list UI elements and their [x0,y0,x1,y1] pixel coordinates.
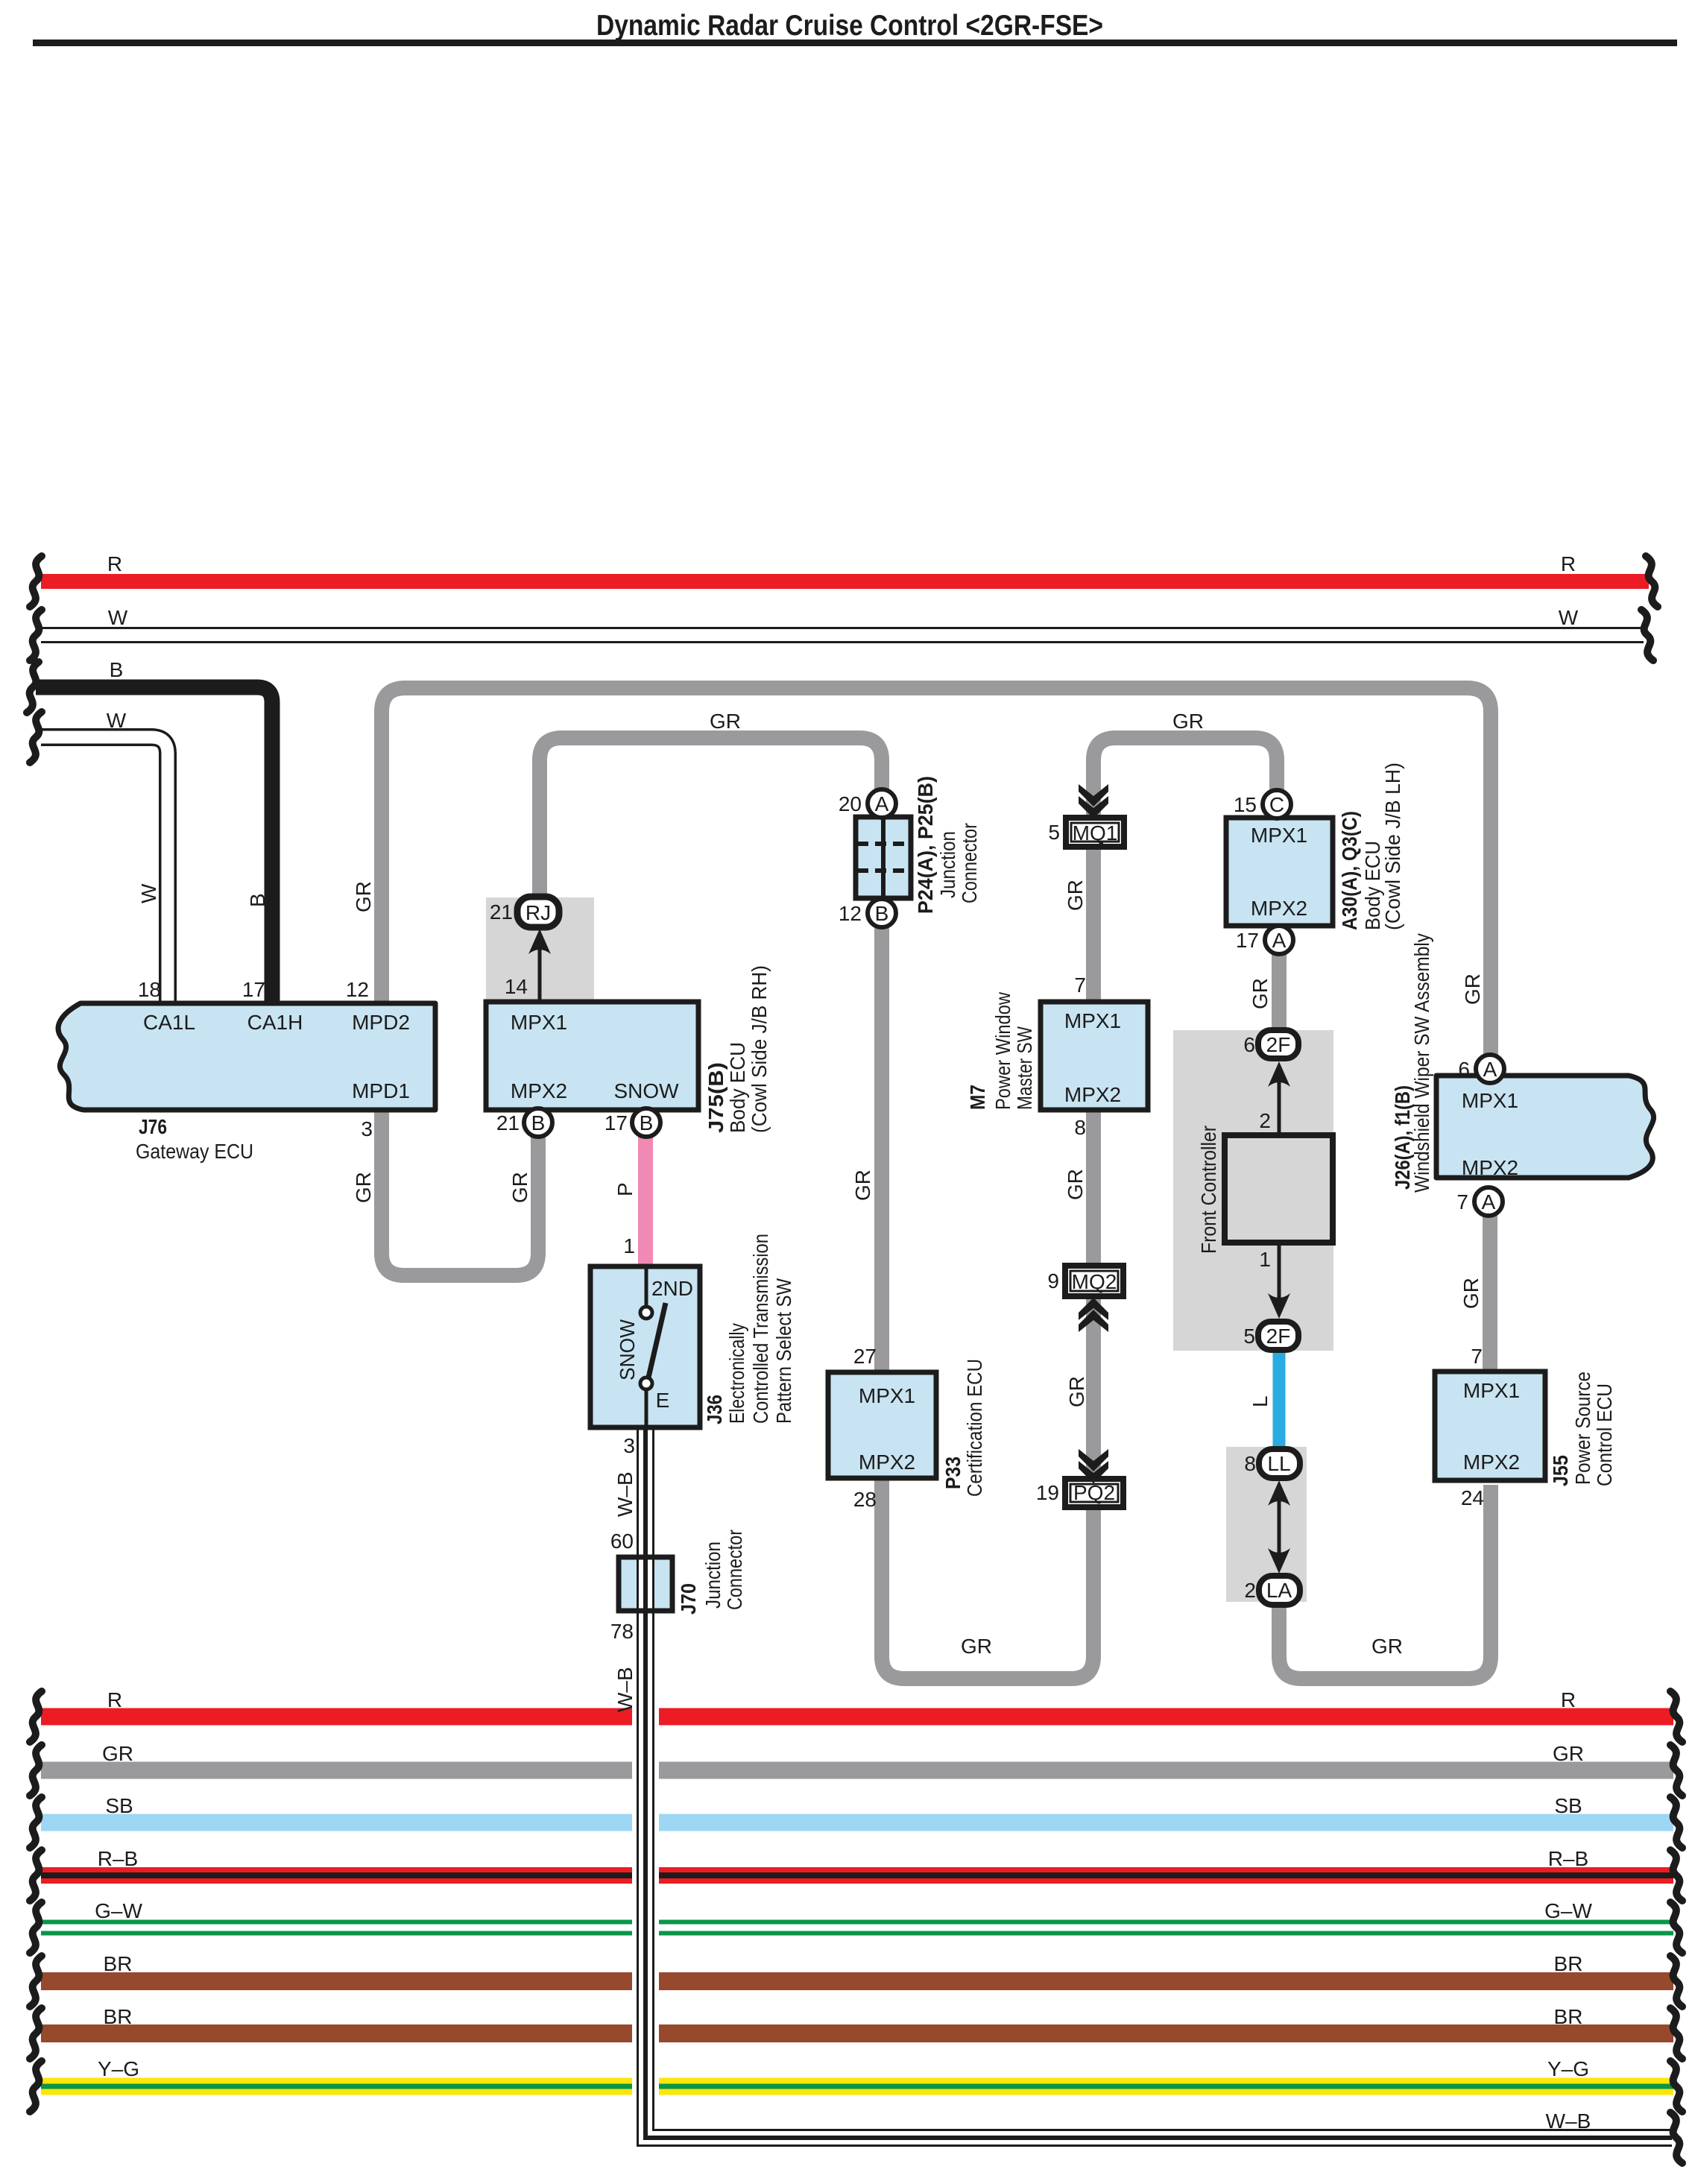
svg-text:20: 20 [839,792,862,815]
break squiggle R top left [30,556,42,607]
wire GR J76 pin12 to J26 pin6 (top long run) [382,688,1491,1061]
P24 internal vertical line [881,817,886,898]
svg-text:W: W [137,883,160,903]
svg-text:MPX1: MPX1 [859,1384,915,1407]
PQ2 connector box [1065,1479,1123,1507]
svg-text:B: B [531,1111,546,1134]
svg-text:6: 6 [1458,1058,1470,1081]
wire W bus (top) outer [41,627,1644,643]
Certification ECU P33 box [828,1372,936,1478]
svg-text:GR: GR [1064,1169,1087,1200]
J36 switch top lead [645,1266,648,1307]
svg-text:MPX1: MPX1 [1064,1009,1121,1032]
svg-text:8: 8 [1244,1452,1256,1475]
P24 internal dashed line 1 [857,842,909,846]
svg-text:MPX1: MPX1 [511,1011,567,1034]
svg-text:R: R [107,552,122,575]
svg-text:Connector: Connector [723,1530,746,1610]
svg-text:MPX1: MPX1 [1251,824,1307,847]
svg-text:P24(A), P25(B): P24(A), P25(B) [914,776,937,914]
svg-text:3: 3 [623,1434,635,1457]
arrow up into RJ [538,944,542,1002]
Body ECU J75(B) box [486,1002,698,1110]
svg-text:Y–G: Y–G [1547,2057,1589,2080]
svg-text:L: L [1249,1395,1272,1407]
svg-text:7: 7 [1456,1190,1468,1213]
connector circle B12 on P24 [868,899,896,927]
svg-text:MPX2: MPX2 [859,1451,915,1474]
chevron pair above PQ2 (pointing down) [1079,1449,1108,1471]
svg-text:2: 2 [1259,1109,1271,1132]
svg-text:R–B: R–B [1548,1847,1588,1870]
svg-text:MPX2: MPX2 [1251,897,1307,920]
svg-text:W: W [1559,606,1579,629]
svg-text:P33: P33 [941,1456,965,1489]
svg-text:LL: LL [1267,1452,1290,1475]
wire P (pink) J75 pin17 to J36 pin1 [638,1134,653,1269]
svg-text:Body ECU: Body ECU [726,1042,749,1133]
wire GR bus (bottom) [41,1762,1673,1779]
svg-text:MPX2: MPX2 [1463,1451,1520,1474]
wire GR J76 pin3 to J75 pin21 (U link) [382,1110,538,1275]
wire BR bus 2 (bottom) [41,2024,1673,2042]
MQ2 connector box [1065,1266,1123,1296]
svg-text:Windshield Wiper SW Assembly: Windshield Wiper SW Assembly [1410,933,1433,1193]
svg-text:1: 1 [1259,1248,1271,1271]
svg-text:(Cowl Side J/B LH): (Cowl Side J/B LH) [1381,763,1404,930]
arrow down into LA [1268,1548,1290,1574]
svg-text:CA1H: CA1H [247,1011,303,1034]
svg-text:21: 21 [496,1111,520,1134]
svg-text:GR: GR [352,881,375,912]
wire B to J76 pin 17 [36,687,272,1006]
connector circle A7 on J26 [1474,1187,1503,1216]
svg-text:GR: GR [710,710,741,733]
svg-text:(Cowl Side J/B RH): (Cowl Side J/B RH) [748,965,771,1133]
svg-text:SB: SB [105,1794,133,1817]
Pattern Select SW J36 box [590,1266,700,1427]
svg-text:MPX2: MPX2 [1064,1083,1121,1106]
svg-text:GR: GR [102,1742,133,1765]
wire W bus (top) core [40,629,1645,641]
svg-text:Junction: Junction [701,1541,725,1609]
svg-text:CA1L: CA1L [143,1011,195,1034]
svg-text:J36: J36 [703,1395,726,1424]
svg-text:W–B: W–B [1546,2109,1591,2133]
svg-text:9: 9 [1047,1269,1059,1293]
svg-text:21: 21 [490,900,513,924]
svg-text:GR: GR [851,1170,874,1201]
svg-text:GR: GR [508,1172,531,1203]
chevron pair above MQ1 (pointing down) [1079,784,1108,807]
J36 switch contact circle top [640,1307,652,1319]
wire G-W bus (bottom) [41,1920,1673,1936]
svg-text:A: A [1482,1190,1496,1213]
shade behind Front Controller [1173,1030,1333,1351]
svg-text:6: 6 [1243,1033,1255,1056]
break squiggle W top right [1641,610,1653,660]
wire GR A30 pin17 to 2F pin6 [1272,950,1287,1038]
wire R bus (bottom) [41,1708,1673,1726]
svg-text:17: 17 [242,978,265,1001]
svg-text:E: E [656,1389,670,1412]
svg-text:12: 12 [346,978,369,1001]
svg-text:BR: BR [104,2005,133,2028]
svg-text:M7: M7 [966,1085,989,1110]
MQ1 connector box [1066,818,1124,847]
junction connector J70 fill [619,1557,672,1611]
shade behind LL-LA connectors [1226,1447,1307,1602]
Front Controller box [1225,1135,1333,1243]
break squiggles bottom right [1670,1691,1682,1742]
svg-text:5: 5 [1243,1325,1255,1348]
svg-text:12: 12 [839,902,862,925]
shade behind RJ connector [486,897,594,1003]
svg-text:27: 27 [853,1345,877,1368]
svg-text:SNOW: SNOW [616,1319,639,1380]
svg-text:18: 18 [138,978,161,1001]
svg-text:17: 17 [1236,929,1259,952]
arrow down into 2F pin5 [1278,1243,1281,1301]
svg-text:GR: GR [1371,1635,1403,1658]
svg-text:B: B [640,1111,654,1134]
svg-text:2F: 2F [1266,1325,1291,1348]
svg-text:B: B [110,658,124,681]
svg-text:Pattern Select SW: Pattern Select SW [772,1278,795,1424]
connector circle C15 on A30 [1263,790,1291,818]
Body ECU A30/Q3 box [1226,818,1333,926]
svg-text:SB: SB [1554,1794,1582,1817]
connector LL pin8 ellipse [1259,1449,1300,1478]
connector 2F pin6 ellipse [1258,1030,1298,1058]
svg-text:Power Window: Power Window [991,991,1014,1110]
svg-text:GR: GR [1459,1278,1483,1309]
svg-text:W–B: W–B [613,1667,637,1712]
svg-text:24: 24 [1461,1486,1484,1509]
J36 switch contact circle bottom [640,1377,652,1389]
svg-text:3: 3 [361,1117,373,1140]
junction connector P24/P25 box [856,817,911,898]
J36 switch blade [648,1303,666,1377]
wire GR P24 pin12 to P33 pin27 [874,921,889,1375]
svg-text:GR: GR [1172,710,1204,733]
svg-text:G–W: G–W [1544,1899,1592,1922]
svg-text:R–B: R–B [98,1847,138,1870]
svg-text:Dynamic Radar Cruise Control <: Dynamic Radar Cruise Control <2GR-FSE> [596,10,1103,42]
svg-text:Electronically: Electronically [725,1323,748,1424]
svg-text:G–W: G–W [95,1899,142,1922]
Power Window Master SW M7 box [1041,1002,1148,1110]
svg-text:R: R [1561,552,1576,575]
svg-text:MPX1: MPX1 [1463,1379,1520,1402]
connector circle B17 on J75 [632,1108,660,1137]
svg-text:Controlled Transmission: Controlled Transmission [749,1234,772,1424]
svg-text:MPX2: MPX2 [1462,1156,1518,1179]
white gap where W-B wire crosses buses [632,1704,659,2098]
svg-text:Certification ECU: Certification ECU [963,1359,986,1497]
svg-text:PQ2: PQ2 [1073,1481,1115,1504]
connector LA pin2 ellipse [1259,1576,1300,1605]
svg-text:5: 5 [1048,821,1060,844]
wire W to J76 pin 18 core [40,737,168,1008]
svg-text:7: 7 [1074,973,1086,997]
svg-text:B: B [246,893,269,907]
svg-text:RJ: RJ [525,901,551,924]
svg-text:Gateway ECU: Gateway ECU [136,1140,253,1163]
chevron pair below MQ2 (pointing up) [1079,1298,1108,1320]
svg-text:GR: GR [961,1635,992,1658]
break squiggle B top left [27,662,39,713]
svg-text:B: B [875,902,889,925]
wire W-B J36 pinE to bottom-right bus outer [645,1427,1672,2138]
svg-text:BR: BR [104,1952,133,1975]
connector circle A20 on P24 [868,789,896,818]
connector circle A6 on J26 [1476,1055,1504,1083]
svg-text:GR: GR [1064,880,1087,911]
svg-text:GR: GR [352,1172,375,1203]
break squiggle W2 top left [30,712,42,763]
svg-text:MQ1: MQ1 [1073,821,1118,845]
svg-text:C: C [1269,793,1284,816]
svg-text:15: 15 [1234,793,1257,816]
svg-text:MPD2: MPD2 [352,1011,410,1034]
wire R bus (top) [41,574,1649,589]
svg-text:W: W [107,709,127,732]
wire Y-G bus (bottom) [41,2078,1673,2095]
svg-text:GR: GR [1461,973,1484,1005]
wire GR LA pin2 to J55 pin24 (U link) [1279,1485,1491,1679]
wire GR J26 pin7 to J55 pin7 [1483,1211,1497,1375]
Windshield Wiper SW J26/f1 box (torn right edge) [1436,1076,1654,1178]
break squiggles bottom left [30,1691,42,1742]
svg-text:Connector: Connector [958,823,981,903]
wire GR MQ1 branch to A30 pin15 [1093,738,1277,1002]
svg-text:Power Source: Power Source [1571,1372,1594,1485]
break squiggle W top left [30,610,42,660]
wire GR P33 pin28 to PQ2 (U link) [882,1478,1093,1679]
Gateway ECU J76 box (torn left edge) [58,1003,435,1110]
svg-text:MPD1: MPD1 [352,1079,410,1102]
svg-text:8: 8 [1074,1116,1086,1139]
wire GR MQ2 to PQ2 [1086,1296,1101,1480]
wire W-B core [638,1427,1673,2146]
wire GR RJ to P24 pin20 [540,738,882,905]
svg-text:W–B: W–B [613,1471,637,1517]
svg-text:Junction: Junction [936,831,959,898]
svg-text:SNOW: SNOW [613,1079,679,1102]
Power Source Control ECU J55 box [1435,1372,1545,1480]
arrow up into LL [1278,1500,1281,1559]
connector circle B21 on J75 [524,1108,552,1137]
svg-text:2F: 2F [1266,1033,1291,1056]
svg-text:A: A [1272,929,1287,952]
svg-text:A30(A), Q3(C): A30(A), Q3(C) [1338,811,1361,930]
svg-text:7: 7 [1471,1345,1483,1368]
P24 internal dashed line 2 [857,868,909,873]
wire L (blue) 2F pin5 to LL pin8 [1273,1348,1286,1454]
svg-text:19: 19 [1036,1481,1059,1504]
svg-text:R: R [107,1688,122,1711]
svg-text:Front Controller: Front Controller [1197,1126,1220,1254]
svg-text:BR: BR [1554,1952,1583,1975]
svg-text:J76: J76 [139,1115,167,1138]
svg-text:GR: GR [1249,978,1272,1009]
svg-text:28: 28 [853,1488,877,1511]
svg-text:Master SW: Master SW [1013,1026,1036,1110]
svg-text:R: R [1561,1688,1576,1711]
connector RJ ellipse [517,897,559,927]
svg-text:J75(B): J75(B) [704,1062,727,1133]
connector 2F pin5 ellipse [1258,1322,1298,1350]
break squiggle R top right [1646,556,1658,607]
svg-text:1: 1 [623,1234,635,1257]
svg-text:MPX1: MPX1 [1462,1089,1518,1112]
svg-text:GR: GR [1065,1376,1088,1407]
svg-text:A: A [875,792,889,815]
svg-text:A: A [1483,1058,1497,1081]
svg-text:2: 2 [1244,1579,1256,1602]
svg-text:MPX2: MPX2 [511,1079,567,1102]
wire GR M7 pin8 to MQ2 [1086,1110,1101,1267]
junction connector J70 border [619,1557,672,1611]
svg-text:J55: J55 [1549,1455,1572,1486]
arrow up into 2F pin6 [1278,1076,1281,1135]
svg-text:60: 60 [610,1530,634,1553]
svg-text:GR: GR [1553,1742,1584,1765]
svg-text:Control ECU: Control ECU [1593,1383,1616,1486]
svg-text:MQ2: MQ2 [1072,1270,1117,1293]
svg-text:Y–G: Y–G [98,2057,139,2080]
svg-text:78: 78 [610,1620,634,1643]
wire BR bus 1 (bottom) [41,1972,1673,1990]
svg-text:J70: J70 [677,1583,700,1615]
svg-text:BR: BR [1554,2005,1583,2028]
connector circle A17 on A30 [1265,926,1293,954]
svg-text:17: 17 [604,1111,628,1134]
J36 switch bottom lead [645,1389,648,1427]
wire W to J76 pin 18 outer [41,737,168,1006]
wire SB bus (bottom) [41,1814,1673,1831]
svg-text:14: 14 [505,975,528,998]
svg-text:2ND: 2ND [651,1277,693,1300]
title rule [33,40,1677,46]
svg-text:W: W [108,606,128,629]
wire R-B bus (bottom) [41,1867,1673,1884]
svg-text:LA: LA [1266,1579,1292,1602]
svg-text:P: P [613,1182,637,1196]
